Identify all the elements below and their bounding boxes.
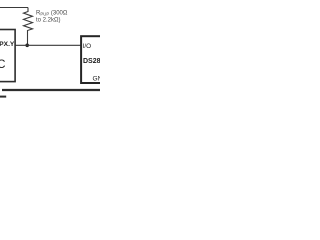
svg-text:I/O: I/O bbox=[83, 43, 92, 50]
svg-text:µC: µC bbox=[0, 59, 5, 71]
svg-text:to 2.2kΩ): to 2.2kΩ) bbox=[36, 18, 61, 24]
svg-text:DS28E05: DS28E05 bbox=[83, 58, 100, 65]
svg-text:GND: GND bbox=[93, 76, 101, 83]
svg-text:PX.Y: PX.Y bbox=[0, 41, 15, 48]
svg-text:RPUP (300Ω: RPUP (300Ω bbox=[36, 10, 68, 16]
